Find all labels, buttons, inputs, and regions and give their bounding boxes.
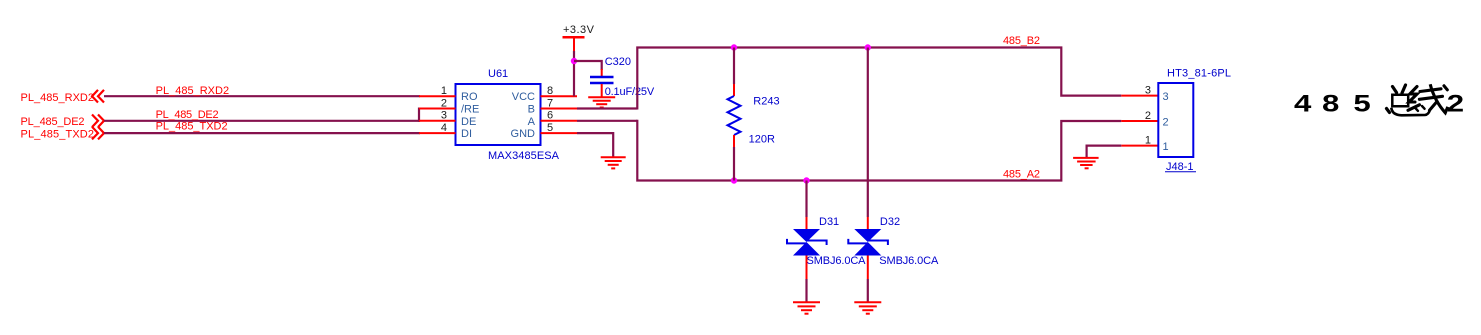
svg-text:MAX3485ESA: MAX3485ESA <box>488 150 560 162</box>
wire net A (pin6 to bottom rail to connector pin2) <box>577 120 1121 181</box>
svg-text:2: 2 <box>441 97 447 109</box>
junction dot top rail R243 <box>731 44 737 50</box>
wire to C320 <box>574 61 602 70</box>
ground J48 pin1 <box>1073 158 1099 168</box>
ground D31 <box>793 302 820 313</box>
junction dot bottom rail D31 <box>803 177 809 183</box>
svg-text:D31: D31 <box>819 216 839 228</box>
svg-text:485_A2: 485_A2 <box>1003 169 1040 181</box>
junction dot VCC <box>571 58 577 64</box>
svg-text:PL_485_RXD2: PL_485_RXD2 <box>21 92 95 104</box>
diode D31 (TVS bidirectional) <box>787 216 866 267</box>
connector pin 2 stub <box>1121 110 1158 122</box>
wire C320 to ground <box>601 84 603 97</box>
svg-text:PL_485_DE2: PL_485_DE2 <box>156 109 219 121</box>
svg-text:PL_485_TXD2: PL_485_TXD2 <box>156 121 228 133</box>
pin 1 RO <box>419 85 478 103</box>
svg-text:PL_485_TXD2: PL_485_TXD2 <box>21 128 95 140</box>
svg-text:8: 8 <box>547 85 553 97</box>
svg-text:120R: 120R <box>749 134 775 146</box>
title hanzi XIAN (line/wire) <box>1408 84 1448 113</box>
connector pin 3 stub <box>1121 85 1158 97</box>
svg-text:SMBJ6.0CA: SMBJ6.0CA <box>879 255 939 267</box>
svg-text:R243: R243 <box>753 96 779 108</box>
title hanzi ZONG (total/bus) <box>1387 85 1430 115</box>
svg-text:/RE: /RE <box>461 104 479 116</box>
junction dot top rail D32 <box>865 44 871 50</box>
pin 8 VCC <box>512 85 577 103</box>
ground D32 <box>854 302 881 313</box>
svg-text:1: 1 <box>1145 135 1151 147</box>
junction dot bottom rail R243 <box>731 177 737 183</box>
svg-text:485_B2: 485_B2 <box>1003 35 1040 47</box>
svg-text:8: 8 <box>1322 90 1339 117</box>
svg-text:5: 5 <box>1353 90 1370 117</box>
svg-text:SMBJ6.0CA: SMBJ6.0CA <box>807 255 867 267</box>
port PL_485_TXD2 <box>21 127 105 141</box>
op-amp / IC U61 body <box>456 68 560 162</box>
capacitor C320 <box>590 56 655 98</box>
pin 6 A <box>528 110 577 128</box>
svg-text:+3.3V: +3.3V <box>563 24 595 36</box>
pin 4 DI <box>419 122 472 140</box>
pin 5 GND <box>511 122 577 140</box>
svg-text:4: 4 <box>1294 90 1312 117</box>
wire pin5 GND <box>577 133 613 156</box>
wire D31 to bottom rail <box>805 181 807 218</box>
ground C320 <box>588 97 615 107</box>
svg-text:6: 6 <box>547 110 553 122</box>
svg-text:2: 2 <box>1447 90 1464 117</box>
svg-text:GND: GND <box>511 128 536 140</box>
wire VCC vertical <box>573 51 575 96</box>
ground pin5 <box>601 157 626 168</box>
power +3.3V <box>563 24 595 51</box>
wire pin1 to ground <box>1087 146 1122 157</box>
svg-text:7: 7 <box>547 97 553 109</box>
connector pin 1 stub <box>1121 135 1158 147</box>
svg-text:D32: D32 <box>880 216 900 228</box>
wire net PL_485_DE2 <box>104 120 420 122</box>
wire net PL_485_TXD2 <box>104 132 420 134</box>
svg-text:J48-1: J48-1 <box>1166 161 1194 173</box>
pin 3 DE <box>419 110 476 128</box>
svg-text:PL_485_RXD2: PL_485_RXD2 <box>156 85 230 97</box>
svg-text:RO: RO <box>461 91 478 103</box>
wire net B (pin7 to top rail to connector pin3) <box>577 48 1121 110</box>
svg-text:U61: U61 <box>488 68 508 80</box>
wire net PL_485_RXD2 <box>104 95 420 97</box>
resistor R243 <box>728 48 780 181</box>
wire D32 to top rail (crosses bottom rail) <box>867 48 869 218</box>
connector J48 body HT3_81-6PL <box>1158 67 1231 173</box>
svg-text:PL_485_DE2: PL_485_DE2 <box>21 116 85 128</box>
wire D31 to ground <box>806 256 808 280</box>
svg-text:1: 1 <box>1163 141 1169 153</box>
svg-text:B: B <box>528 104 535 116</box>
pin 7 B <box>528 97 577 115</box>
port PL_485_RXD2 <box>21 90 105 104</box>
pin 2 /RE <box>419 97 479 115</box>
port PL_485_DE2 <box>21 115 105 129</box>
svg-text:2: 2 <box>1145 110 1151 122</box>
svg-text:DI: DI <box>461 128 472 140</box>
svg-text:2: 2 <box>1163 116 1169 128</box>
svg-text:3: 3 <box>441 110 447 122</box>
svg-text:4: 4 <box>441 122 447 134</box>
svg-text:C320: C320 <box>605 56 631 68</box>
svg-text:3: 3 <box>1145 85 1151 97</box>
svg-text:1: 1 <box>441 85 447 97</box>
wire /RE-DE tie <box>418 108 420 122</box>
svg-text:VCC: VCC <box>512 91 535 103</box>
svg-text:DE: DE <box>461 116 476 128</box>
svg-text:3: 3 <box>1163 91 1169 103</box>
svg-text:5: 5 <box>547 122 553 134</box>
svg-text:A: A <box>528 116 536 128</box>
diode D32 (TVS bidirectional) <box>848 216 939 267</box>
svg-text:HT3_81-6PL: HT3_81-6PL <box>1167 67 1231 79</box>
wire D32 to ground <box>867 256 869 280</box>
